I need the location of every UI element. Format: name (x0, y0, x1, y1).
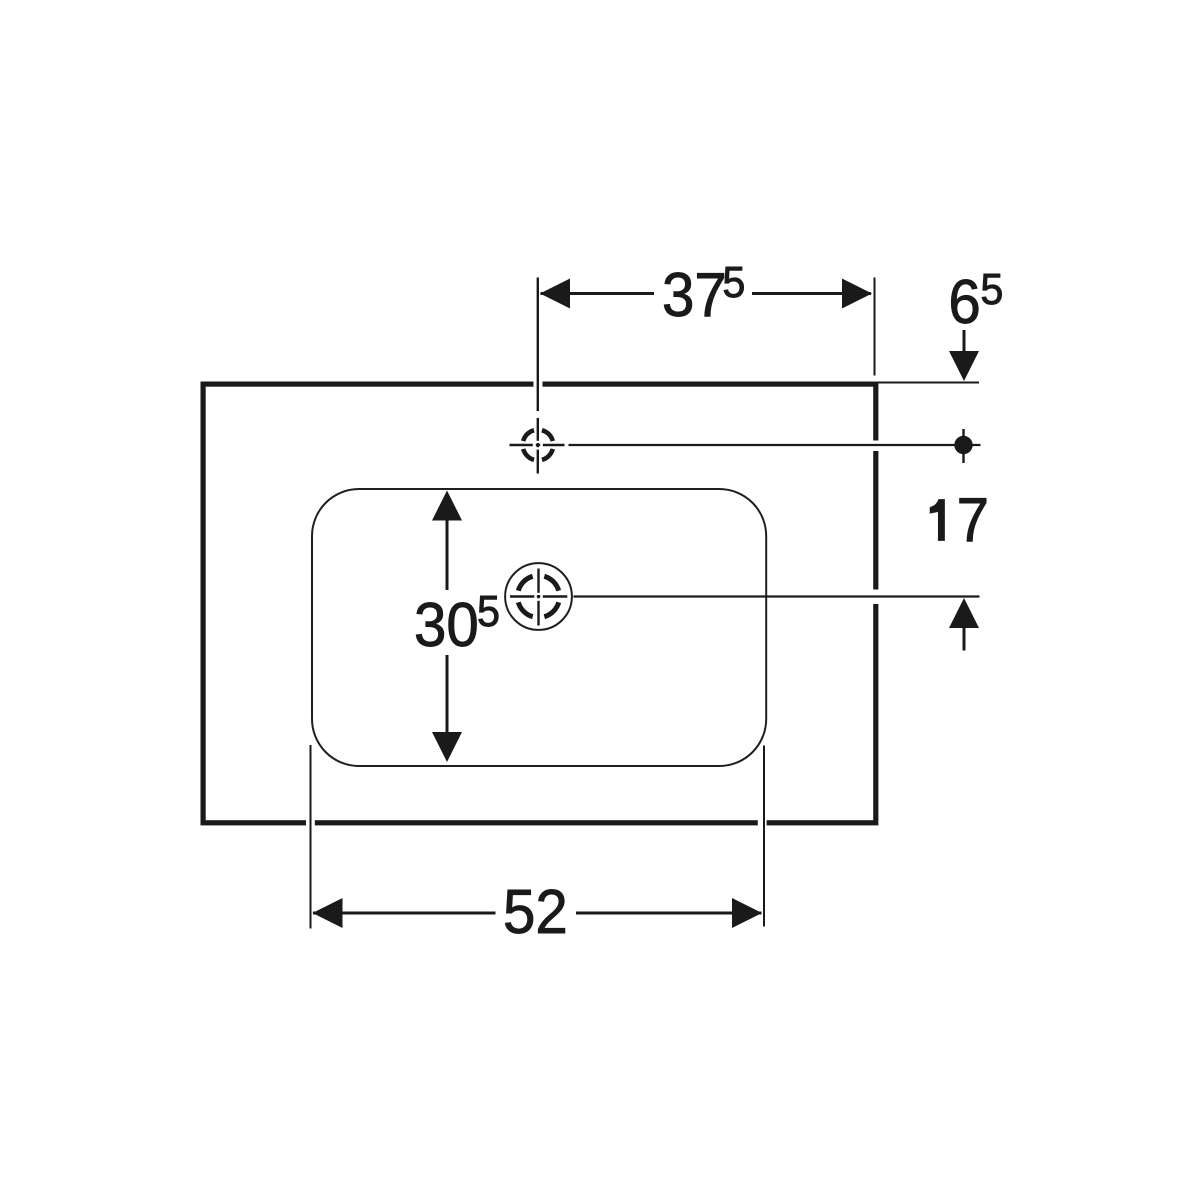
gap in top edge at faucet centerline (534, 379, 543, 390)
gap in bottom edge at left 52-extension (306, 818, 315, 828)
svg-text:7: 7 (957, 485, 989, 554)
dim 6.5 text 6 (948, 267, 980, 336)
dim 52 left arrowhead (313, 898, 343, 928)
dim 30.5 line upper segment (446, 520, 449, 590)
gap in right edge at drain hole line (869, 590, 880, 605)
dim text 30 (414, 590, 479, 659)
dim 37.5 line left segment (541, 292, 655, 295)
dim 17 arrow tail (963, 628, 966, 651)
dim 30.5 down arrowhead (432, 732, 462, 762)
dim 52 line right segment (576, 912, 762, 915)
svg-text:37: 37 (662, 260, 727, 329)
dim terminator dot on faucet line (954, 436, 972, 454)
drain hole vertical centerline (537, 569, 539, 626)
svg-text:30: 30 (414, 590, 479, 659)
gap in bottom edge at right 52-extension (758, 818, 767, 828)
svg-text:52: 52 (503, 877, 568, 946)
faucet hole vertical centerline (extension to 37.5 dim) (537, 278, 539, 474)
drain hole leader line to right arrow (574, 595, 980, 597)
dim 37.5 right extension line (874, 278, 876, 376)
svg-text:5: 5 (980, 265, 1003, 314)
svg-text:6: 6 (948, 267, 980, 336)
dim 30.5 up arrowhead (432, 491, 462, 521)
dim 52 left extension line (310, 745, 312, 929)
basin bowl rounded rectangle (312, 489, 766, 766)
dim 52 right extension line (763, 746, 765, 927)
dim 6.5 superscript 5 (980, 265, 1003, 314)
dim text 30 superscript 5 (477, 587, 500, 636)
dim 37.5 right arrowhead (842, 279, 872, 309)
dim text 37 (662, 260, 727, 329)
dim 37.5 line right segment (752, 292, 871, 295)
drain hole inner arcs (518, 576, 558, 616)
washbasin outer outline (203, 384, 876, 823)
dim 6.5 down arrowhead (949, 351, 979, 381)
drain hole outer circle (505, 563, 572, 630)
svg-text:5: 5 (722, 258, 745, 307)
dot vertical tick (962, 429, 964, 463)
top edge extension line right of basin (877, 382, 980, 384)
dim 52 line left segment (313, 912, 496, 915)
dim 17 up arrowhead on drain line (949, 598, 979, 628)
dim text 52 (503, 877, 568, 946)
faucet hole horizontal centerline (510, 444, 565, 446)
svg-text:5: 5 (477, 587, 500, 636)
gap in right edge at faucet hole line (869, 441, 880, 452)
dim 30.5 line lower segment (446, 655, 449, 733)
dim 6.5 arrow tail (963, 330, 966, 357)
dim text 17 (930, 500, 944, 541)
faucet hole arcs (523, 430, 553, 460)
dim text 37 superscript 5 (722, 258, 745, 307)
drain hole horizontal centerline (510, 595, 567, 597)
faucet hole leader line to right dot (569, 444, 981, 446)
dim 52 right arrowhead (732, 898, 762, 928)
dim 37.5 left arrowhead (540, 279, 570, 309)
